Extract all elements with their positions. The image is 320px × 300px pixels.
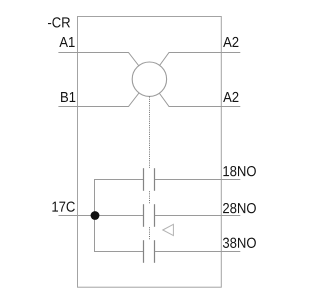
wire 28NO right [155, 215, 241, 217]
wire 17C [59, 215, 144, 217]
label 38NO [223, 238, 256, 248]
wire contact 38 left branch [94, 251, 143, 253]
wire B1 [58, 80, 149, 107]
mechanical linkage dashed line [149, 97, 151, 240]
coil -CR [132, 62, 166, 96]
contact 17-18 NO plates [144, 168, 155, 191]
contact 17-38 NO plates [144, 240, 155, 263]
label 28NO [223, 203, 256, 213]
vertical bus wire common [94, 180, 96, 252]
label B1 [61, 92, 75, 102]
label A1 [59, 37, 74, 47]
wire 18NO right [155, 179, 241, 181]
wire A2 bottom [149, 80, 240, 107]
label 18NO [223, 166, 255, 176]
relay outline box -CR [78, 17, 222, 288]
semiconductor output triangle symbol [163, 224, 174, 235]
label A2 top [223, 37, 238, 47]
wire contact 18 left branch [94, 179, 143, 181]
wire 38NO right [155, 251, 241, 253]
label A2 bottom [223, 92, 238, 102]
wire A2 top [149, 53, 240, 80]
contact 17-28 NO plates [144, 204, 155, 227]
junction dot node 17C [91, 211, 100, 220]
label 17C [52, 201, 74, 211]
wire A1 [58, 53, 149, 80]
label -CR [48, 17, 70, 27]
